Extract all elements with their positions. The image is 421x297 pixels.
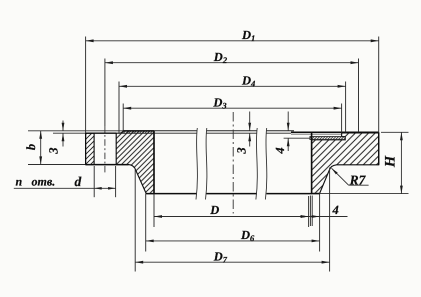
svg-text:n: n: [16, 175, 23, 189]
svg-text:H: H: [382, 155, 398, 168]
svg-text:3: 3: [46, 147, 60, 154]
svg-text:4: 4: [273, 147, 287, 154]
svg-text:3: 3: [235, 147, 249, 154]
svg-text:отв.: отв.: [32, 175, 56, 189]
svg-text:d: d: [75, 174, 82, 189]
svg-text:4: 4: [332, 203, 339, 217]
svg-text:b: b: [24, 144, 38, 150]
svg-text:R7: R7: [349, 173, 367, 188]
svg-text:D: D: [209, 203, 219, 217]
